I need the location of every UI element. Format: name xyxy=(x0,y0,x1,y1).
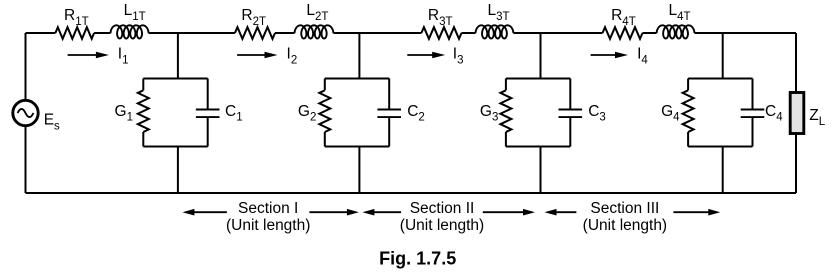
current arrow I2 xyxy=(237,54,267,56)
section marker arrow left (Section II) xyxy=(371,211,401,213)
svg-text:Section III: Section III xyxy=(590,200,659,217)
inductor L4T xyxy=(657,25,695,38)
capacitor C2 (plates with leads) xyxy=(388,79,390,110)
conductance G1 (zigzag with leads) xyxy=(142,79,144,91)
svg-text:Section I: Section I xyxy=(238,200,298,217)
wire: left vertical from source bottom to bottom rail xyxy=(25,127,27,193)
section marker arrow right (Section III) xyxy=(673,211,711,213)
wire: top rail segment after L3T xyxy=(513,32,602,34)
current arrow I4 xyxy=(591,54,618,56)
wire: shunt box 1 top bar xyxy=(143,78,207,80)
wire: top rail segment after L1T xyxy=(149,32,235,34)
inductor L2T xyxy=(295,25,334,38)
wire: right vertical from load ZL to bottom rail xyxy=(795,134,797,194)
load ZL (rectangle) xyxy=(790,93,804,134)
svg-text:Section II: Section II xyxy=(410,200,475,217)
AC source Es (circle) xyxy=(13,100,38,125)
wire: shunt box 1 bottom bar xyxy=(143,146,207,148)
svg-text:(Unit length): (Unit length) xyxy=(400,217,484,234)
current arrow I3 xyxy=(407,54,435,56)
wire: R4T to L4T link xyxy=(643,32,657,34)
section marker arrow left (Section III) xyxy=(554,211,577,213)
section marker arrow right (Section I) xyxy=(309,211,350,213)
resistor R2T xyxy=(235,27,275,39)
wire: stub from top rail to shunt box 4 xyxy=(722,33,724,79)
resistor R4T xyxy=(603,27,643,39)
wire: stub from shunt box 4 to bottom rail xyxy=(722,147,724,194)
wire: shunt box 3 top bar xyxy=(506,78,570,80)
svg-text:(Unit length): (Unit length) xyxy=(583,217,667,234)
inductor L3T xyxy=(476,25,514,38)
resistor R1T xyxy=(55,27,94,39)
capacitor C1 (plates with leads) xyxy=(207,79,209,110)
capacitor C3 (plates with leads) xyxy=(569,79,571,110)
wire: stub from shunt box 2 to bottom rail xyxy=(358,147,360,194)
wire: stub from top rail to shunt box 3 xyxy=(540,33,542,79)
capacitor C4 (plates with leads) xyxy=(752,79,754,110)
wire: R1T to L1T link xyxy=(94,32,110,34)
wire: R2T to L2T link xyxy=(275,32,295,34)
conductance G3 (zigzag with leads) xyxy=(505,79,507,91)
wire: stub from top rail to shunt box 1 xyxy=(177,33,179,79)
wire: stub from top rail to shunt box 2 xyxy=(358,33,360,79)
wire: stub from shunt box 1 to bottom rail xyxy=(177,147,179,194)
wire: right vertical from top rail to load ZL xyxy=(795,33,797,93)
wire: top rail segment after L2T xyxy=(333,32,421,34)
wire: shunt box 3 bottom bar xyxy=(506,146,570,148)
inductor L1T xyxy=(111,25,149,38)
wire: shunt box 2 top bar xyxy=(325,78,389,80)
wire: shunt box 4 bottom bar xyxy=(688,146,752,148)
wire: stub from shunt box 3 to bottom rail xyxy=(540,147,542,194)
wire: shunt box 2 bottom bar xyxy=(325,146,389,148)
conductance G2 (zigzag with leads) xyxy=(324,79,326,91)
AC source sine wave xyxy=(18,109,34,117)
wire: left vertical from top rail to source top xyxy=(25,33,27,99)
wire: R3T to L3T link xyxy=(462,32,476,34)
resistor R3T xyxy=(421,27,461,39)
wire: top rail segment after L4T xyxy=(695,32,797,34)
wire: top rail left segment (source corner to R1T) xyxy=(26,32,56,34)
current arrow I1 xyxy=(68,54,99,56)
wire: shunt box 4 top bar xyxy=(688,78,752,80)
wire: bottom rail xyxy=(26,192,797,194)
section marker arrow right (Section II) xyxy=(483,211,526,213)
conductance G4 (zigzag with leads) xyxy=(687,79,689,91)
svg-text:Fig. 1.7.5: Fig. 1.7.5 xyxy=(379,249,456,269)
section marker arrow left (Section I) xyxy=(191,211,227,213)
svg-text:(Unit length): (Unit length) xyxy=(226,217,310,234)
